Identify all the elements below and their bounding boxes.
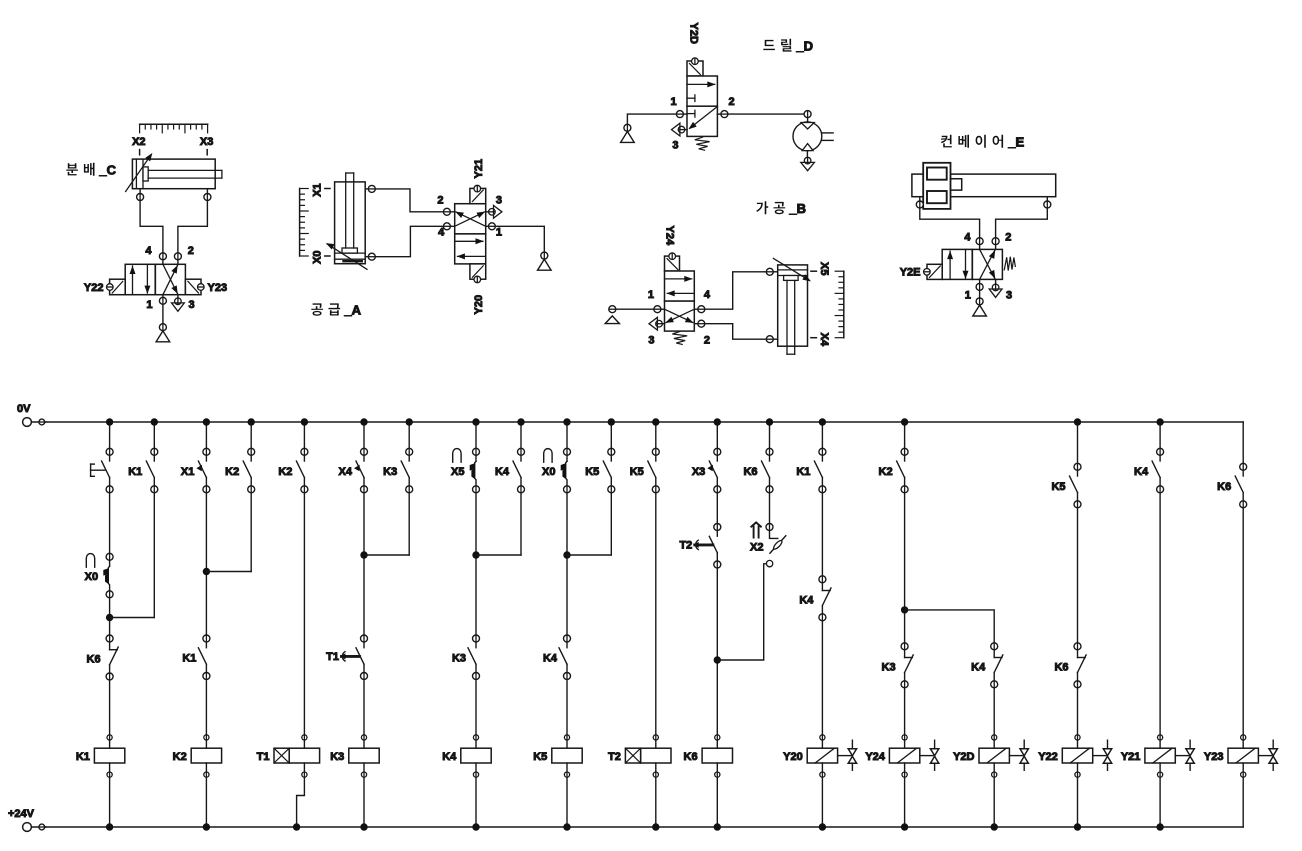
valve D top cell [687, 76, 717, 106]
svg-text:K6: K6 [87, 654, 101, 666]
wire valve B port 1 to supply [616, 308, 654, 310]
wire cylinder-C right port to valve port 2 [178, 201, 208, 253]
timer coil T2 [608, 735, 671, 777]
+24V supply rail [46, 826, 1243, 828]
linear drive E left port [916, 197, 923, 208]
wire rail to K4 contact rung19 [1159, 422, 1161, 448]
svg-text:4: 4 [704, 289, 711, 301]
wire coil K6 to +24V rail [716, 777, 718, 827]
svg-text:1: 1 [496, 227, 502, 239]
relay coil K3 [330, 735, 379, 777]
wire coil Y20 to +24V rail [821, 777, 823, 827]
valve E port 1 [976, 279, 983, 290]
linear drive E carriage [923, 163, 962, 209]
wire T2 contact to coil K6 [716, 568, 718, 735]
label X2 limit position [132, 136, 145, 148]
wire coil K2 to +24V rail [205, 777, 207, 827]
svg-text:1: 1 [648, 289, 654, 301]
label port 2 valve E [1005, 232, 1011, 244]
valve C body left cell [125, 264, 155, 294]
ruler scale beside cylinder B [835, 271, 844, 338]
cylinder C left port stub [137, 189, 144, 201]
wire K4 NC to coil Y2D [993, 688, 995, 735]
wire K3 to coil K4 [475, 680, 477, 735]
NC contact K3 (rung 16) [882, 643, 914, 688]
label 가공_B [756, 201, 806, 216]
wire rail to X1 contact [205, 422, 207, 448]
NC contact K4 (rung 17) [971, 643, 1003, 688]
label 0V [17, 403, 31, 415]
NO contact K2 (rung 4) [225, 448, 255, 493]
limit switch contact X1 [181, 448, 210, 493]
svg-text:3: 3 [189, 299, 195, 311]
label port 1 valve A [496, 227, 502, 239]
wire valve D port 1 to supply [627, 114, 676, 124]
linear drive E body [912, 174, 1056, 197]
label +24V [8, 808, 35, 820]
wire rail to K3 contact [408, 422, 410, 448]
NO contact K5 (rung 18) [1051, 463, 1081, 508]
wire coil K1 to +24V rail [109, 777, 111, 827]
NO contact K2 (rung 16) [879, 448, 909, 493]
svg-text:K3: K3 [383, 466, 397, 478]
label Y22 [84, 282, 104, 294]
wire valve B port 2 to cylinder bottom [705, 324, 767, 340]
solenoid coil Y2D [953, 735, 1028, 777]
cushion adjust arrow C [126, 153, 153, 192]
wire K5 contact down [610, 493, 612, 555]
junction rung10/rung11 [563, 551, 570, 558]
svg-text:K6: K6 [743, 466, 757, 478]
junction rung6/rung7 [360, 551, 367, 558]
wire rail to K2 contact rung5 [303, 422, 305, 448]
svg-text:X1: X1 [181, 466, 194, 478]
valve D port 2 [717, 111, 728, 118]
wire drive E left port to valve port 4 [920, 208, 980, 238]
svg-text:X5: X5 [818, 262, 830, 275]
NO contact K6 (rung 20) [1217, 463, 1247, 508]
svg-text:K6: K6 [684, 751, 698, 763]
label X3 limit position [200, 136, 213, 148]
label X4 limit position [818, 333, 830, 347]
wire coil K3 to +24V rail [363, 777, 365, 827]
junction rung8/rung9 [472, 551, 479, 558]
label port 3 valve D [672, 140, 678, 152]
tick mark X0 [325, 255, 330, 257]
junction rung16/rung17 [901, 606, 908, 613]
svg-text:3: 3 [496, 194, 502, 206]
NO contact K4 (rung 19) [1134, 448, 1164, 493]
wire rail to X0 reed rung10 [566, 422, 568, 448]
svg-text:Y2E: Y2E [900, 267, 921, 279]
cylinder B bottom port [766, 336, 777, 343]
svg-text:2: 2 [729, 96, 735, 108]
label port 4 valve A [438, 227, 445, 239]
tick mark X3 [206, 150, 208, 155]
wire X1 to K1 contact [205, 493, 207, 635]
wire K2 to timer coil T1 [303, 493, 305, 735]
wire rail corner to K6 contact rung20 [1242, 422, 1244, 463]
svg-text:1: 1 [146, 299, 152, 311]
svg-text:K3: K3 [882, 661, 896, 673]
reed contact X0 (rung 10) [542, 448, 570, 493]
label X1 limit position [312, 183, 324, 196]
ruler scale beside cylinder A [300, 189, 309, 257]
wire valve C port 1 to supply [162, 304, 164, 323]
wire valve D port 2 to motor [728, 113, 804, 115]
wire coil T1 to +24V rail (jog) [297, 777, 305, 827]
svg-text:3: 3 [1006, 290, 1012, 302]
svg-text:K2: K2 [173, 751, 187, 763]
junction coil T2 at rail [652, 823, 659, 830]
valve E port 2 [992, 238, 999, 250]
NO contact K3 (rung 8) [452, 635, 480, 680]
svg-text:Y20: Y20 [783, 751, 803, 763]
NO contact K1 (rung 3) [182, 635, 210, 680]
valve C port 1 [159, 295, 166, 305]
svg-text:T2: T2 [608, 751, 621, 763]
svg-text:T1: T1 [326, 651, 339, 663]
wire K5 to timer coil T2 [655, 493, 657, 735]
label Y20 [473, 295, 485, 315]
valve D port 1 [676, 111, 687, 118]
wire K2 contact down [250, 493, 252, 572]
valve C port 3 exhaust [172, 295, 185, 312]
NO contact K1 (rung 2) [128, 448, 158, 493]
valve A top cell (crossed) [455, 204, 486, 234]
svg-text:3: 3 [672, 140, 678, 152]
cushion adjust arrow A [326, 243, 367, 269]
wire rung7 to junction rung6 [364, 554, 409, 556]
label port 2 valve C [188, 245, 194, 257]
svg-text:1: 1 [670, 96, 676, 108]
ruler scale above cylinder C [140, 124, 208, 133]
svg-text:_A: _A [343, 303, 361, 318]
solenoid coil Y24 [865, 735, 938, 777]
svg-text:Y2D: Y2D [688, 23, 700, 44]
label Y2D [688, 23, 700, 44]
svg-text:Y22: Y22 [84, 282, 104, 294]
svg-text:X5: X5 [451, 466, 464, 478]
wire X0 down to K4 contact [566, 493, 568, 635]
NO contact K2 (rung 5) [278, 448, 308, 493]
svg-text:T2: T2 [679, 540, 692, 552]
wire rail to K1 contact [153, 422, 155, 448]
svg-text:Y2D: Y2D [953, 751, 974, 763]
svg-text:4: 4 [438, 227, 445, 239]
wire K6 NC to coil K1 [109, 680, 111, 735]
svg-text:K4: K4 [442, 751, 457, 763]
wire K3 contact down [408, 493, 410, 555]
branch wire rung16 to rung17 [905, 610, 995, 643]
svg-text:4: 4 [145, 245, 152, 257]
svg-text:4: 4 [964, 232, 971, 244]
svg-text:K4: K4 [543, 653, 558, 665]
svg-text:K5: K5 [585, 466, 599, 478]
NO contact K5 (rung 12) [630, 448, 660, 493]
svg-text:_C: _C [98, 163, 116, 178]
junction coil T1 at rail [293, 823, 300, 830]
relay coil K6 [684, 735, 733, 777]
wire K6 to coil Y23 [1242, 508, 1244, 735]
label X5 limit position [818, 262, 830, 275]
svg-text:K4: K4 [1134, 466, 1149, 478]
junction coil Y2D at rail [991, 823, 998, 830]
wire drive E right port to valve port 2 [996, 208, 1048, 238]
svg-text:K5: K5 [533, 751, 547, 763]
label port 1 valve C [146, 299, 152, 311]
cushion adjust arrow B [773, 258, 811, 281]
junction coil Y24 at rail [901, 823, 908, 830]
wire rail to K5 contact [610, 422, 612, 448]
solenoid coil Y21 [1121, 735, 1194, 777]
wire rail to pushbutton S1 [109, 422, 111, 448]
valve C port 2 [174, 253, 181, 265]
label Y2E [900, 267, 921, 279]
junction rung1/rung2 [106, 614, 113, 621]
valve B port 3 exhaust [649, 317, 665, 330]
wire cylinder-A top port to valve port 2 [375, 189, 443, 212]
NO contact K1 (rung 15) [796, 448, 826, 493]
svg-text:K1: K1 [128, 466, 142, 478]
wire K2 to K3 NC [904, 493, 906, 643]
valve E port 3 exhaust [989, 279, 1002, 297]
svg-text:K4: K4 [495, 466, 510, 478]
junction coil K5 at rail [563, 823, 570, 830]
spring below valve D [695, 137, 710, 150]
return spring valve E [1004, 257, 1015, 271]
wire rail to K2 contact [250, 422, 252, 448]
label port 4 valve B [704, 289, 711, 301]
svg-text:Y23: Y23 [1204, 751, 1224, 763]
relay coil K5 [533, 735, 582, 777]
svg-text:K2: K2 [278, 466, 292, 478]
label port 2 valve B [704, 334, 710, 346]
svg-text:Y20: Y20 [473, 295, 485, 315]
svg-text:Y21: Y21 [473, 159, 485, 179]
svg-text:K5: K5 [630, 466, 644, 478]
wire X2 down to junction rung13 [717, 564, 763, 660]
label port 2 valve D [729, 96, 735, 108]
cylinder A top port [365, 185, 375, 192]
air supply left of valve B [605, 306, 619, 324]
wire rail to X5 reed [475, 422, 477, 448]
solenoid coil Y22 [1038, 735, 1111, 777]
svg-text:2: 2 [704, 334, 710, 346]
svg-text:_D: _D [795, 39, 813, 54]
NO contact K6 (rung 14) [743, 448, 773, 493]
wire rung4 to junction rung3 [206, 571, 251, 573]
label 공급_A [311, 303, 361, 318]
NC contact K6 (rung 1) [87, 635, 119, 680]
0V supply rail [46, 421, 1243, 423]
svg-text:K5: K5 [1051, 481, 1065, 493]
solenoid Y22 box [107, 279, 126, 295]
svg-text:2: 2 [437, 194, 443, 206]
tick mark X4 [811, 337, 817, 339]
timer contact T2 (delayed NO) [679, 524, 720, 569]
junction coil K4 at rail [472, 823, 479, 830]
wire K4 to coil K5 [566, 680, 568, 735]
wire K4 to coil Y21 [1159, 493, 1161, 735]
junction coil K3 at rail [360, 823, 367, 830]
junction coil K2 at rail [203, 823, 210, 830]
label port 3 valve C [189, 299, 195, 311]
label 컨베이어_E [941, 135, 1025, 150]
wire K6 contact to X2 [769, 493, 771, 524]
svg-text:X2: X2 [750, 542, 763, 554]
label port 1 valve B [648, 289, 654, 301]
cylinder C body [132, 159, 222, 189]
valve B top cell [665, 271, 695, 301]
svg-text:X4: X4 [339, 466, 353, 478]
label Y21 [473, 159, 485, 179]
cylinder A body (vertical, rod up) [335, 173, 366, 264]
valve B port 1 [654, 306, 665, 313]
cylinder C right port stub [204, 189, 211, 201]
svg-text:X4: X4 [818, 333, 830, 347]
wire K1 contact down [153, 493, 155, 618]
svg-text:K4: K4 [971, 661, 986, 673]
NC contact K6 (rung 18) [1054, 643, 1086, 688]
svg-text:K6: K6 [1054, 661, 1068, 673]
svg-text:Y23: Y23 [208, 282, 228, 294]
label port 4 valve E [964, 232, 971, 244]
NC contact K4 (rung 15) [799, 576, 831, 621]
wire X4 down to T1 contact [363, 493, 365, 635]
svg-text:X2: X2 [132, 136, 145, 148]
valve C body right cell (crossed) [155, 264, 185, 294]
air supply right of valve A [538, 252, 552, 270]
wire rung9 to junction rung8 [476, 554, 521, 556]
tick mark X2 [139, 150, 141, 155]
svg-text:X1: X1 [312, 183, 324, 196]
valve A port 4 [443, 223, 454, 230]
label port 1 valve D [670, 96, 676, 108]
svg-text:K6: K6 [1217, 481, 1231, 493]
wire K1 to coil K2 [205, 680, 207, 735]
svg-text:2: 2 [188, 245, 194, 257]
reed contact X0 (rung 1) [85, 553, 113, 598]
svg-text:0V: 0V [17, 403, 31, 415]
svg-text:X3: X3 [200, 136, 213, 148]
valve B port 4 [694, 306, 705, 313]
spring below valve B [672, 331, 687, 344]
wire rail to K4 contact [520, 422, 522, 448]
wire rail to K2 contact rung16 [904, 422, 906, 448]
junction coil K6 at rail [714, 823, 721, 830]
0V rail terminals [23, 418, 46, 427]
valve D port 3 exhaust [672, 123, 688, 136]
wire rung11 to junction rung10 [567, 554, 611, 556]
cylinder B body (vertical, rod down) [778, 265, 808, 354]
wire cylinder-C left port to valve port 4 [140, 201, 163, 253]
wire K5 to K6 NC [1077, 508, 1079, 643]
label Y23 [208, 282, 228, 294]
wire K3 NC to coil Y24 [904, 688, 906, 735]
wire valve A port 1 to supply [495, 226, 544, 252]
svg-text:K1: K1 [76, 751, 90, 763]
valve A bottom cell [455, 234, 486, 264]
svg-text:X0: X0 [85, 571, 98, 583]
wire rail to K5 contact rung12 [655, 422, 657, 448]
label port 3 valve B [648, 334, 654, 346]
wire rail to K5 contact rung18 [1077, 422, 1079, 463]
valve C port 4 [159, 253, 166, 265]
label Y24 [664, 226, 676, 246]
air motor exhaust [801, 151, 815, 171]
valve E left cell [942, 249, 972, 279]
solenoid coil Y23 [1204, 735, 1277, 777]
limit switch contact X3 [692, 448, 721, 493]
svg-text:K3: K3 [330, 751, 344, 763]
wire X3 to T2 contact [716, 493, 718, 524]
wire coil Y23 to +24V rail corner [1242, 777, 1244, 827]
air supply under valve E [973, 298, 987, 316]
relay coil K1 [76, 735, 125, 777]
svg-text:K4: K4 [799, 594, 814, 606]
valve A port 1 [486, 223, 496, 230]
valve B port 2 [694, 320, 705, 327]
svg-text:1: 1 [965, 290, 971, 302]
wire K4 NC to coil Y20 [821, 621, 823, 735]
svg-text:K1: K1 [182, 653, 196, 665]
svg-text:Y24: Y24 [865, 751, 885, 763]
wire K1 to K4 NC [821, 493, 823, 576]
wire coil Y22 to +24V rail [1077, 777, 1079, 827]
wire rail to K6 contact [769, 422, 771, 448]
wire valve B port 4 to cylinder top [705, 272, 767, 309]
NO contact K4 (rung 9) [495, 448, 525, 493]
cylinder B top port [766, 268, 777, 275]
air supply under valve C [156, 324, 170, 342]
junction coil Y20 at rail [819, 823, 826, 830]
pushbutton S1 (manual start) [91, 448, 114, 493]
cylinder A bottom port [365, 253, 375, 260]
wire X5 down to K3 contact [475, 493, 477, 635]
valve E port 4 [976, 238, 983, 250]
NO contact K5 (rung 11) [585, 448, 615, 493]
label 드릴_D [763, 39, 813, 54]
label port 3 valve A [496, 194, 502, 206]
junction coil K1 at rail [106, 823, 113, 830]
wire coil Y24 to +24V rail [904, 777, 906, 827]
wire valve E port 1 to supply [979, 290, 981, 298]
wire S1 to X0 reed [109, 493, 111, 554]
solenoid Y2E box [924, 264, 943, 279]
wire K6 NC to coil Y22 [1077, 688, 1079, 735]
junction coil Y22 at rail [1074, 823, 1081, 830]
label port 2 valve A [437, 194, 443, 206]
junction coil Y21 at rail [1156, 823, 1163, 830]
svg-text:T1: T1 [257, 751, 270, 763]
wire coil T2 to +24V rail [655, 777, 657, 827]
label 분배_C [66, 163, 116, 178]
svg-text:Y24: Y24 [664, 226, 676, 246]
air motor [793, 122, 833, 151]
timer coil T1 [257, 735, 320, 777]
svg-text:_B: _B [788, 201, 806, 216]
label X0 limit position [312, 250, 324, 263]
wire cylinder-A bottom port to valve port 4 [375, 226, 443, 256]
air motor port [804, 111, 811, 122]
relay coil K2 [173, 735, 222, 777]
wire rung2 to junction rung1 [110, 617, 155, 619]
svg-text:K2: K2 [879, 466, 893, 478]
svg-text:_E: _E [1007, 135, 1024, 150]
linear drive E right port [1044, 197, 1051, 208]
solenoid Y20 box [470, 264, 486, 283]
